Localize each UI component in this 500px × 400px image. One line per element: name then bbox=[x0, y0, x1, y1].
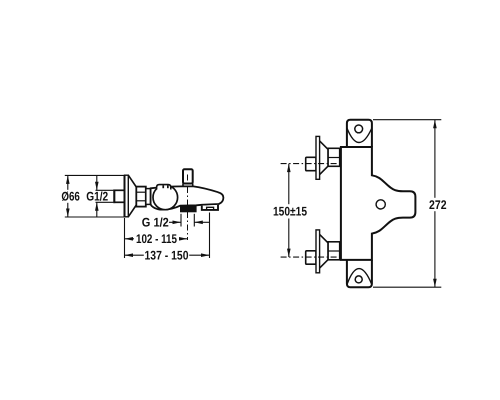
svg-text:102 - 115: 102 - 115 bbox=[136, 232, 177, 246]
svg-text:G 1/2: G 1/2 bbox=[142, 216, 169, 230]
svg-text:272: 272 bbox=[429, 198, 447, 212]
svg-text:G1/2: G1/2 bbox=[86, 190, 108, 204]
svg-text:Ø66: Ø66 bbox=[61, 190, 80, 204]
svg-text:137 - 150: 137 - 150 bbox=[145, 249, 189, 263]
svg-text:150±15: 150±15 bbox=[273, 204, 307, 218]
